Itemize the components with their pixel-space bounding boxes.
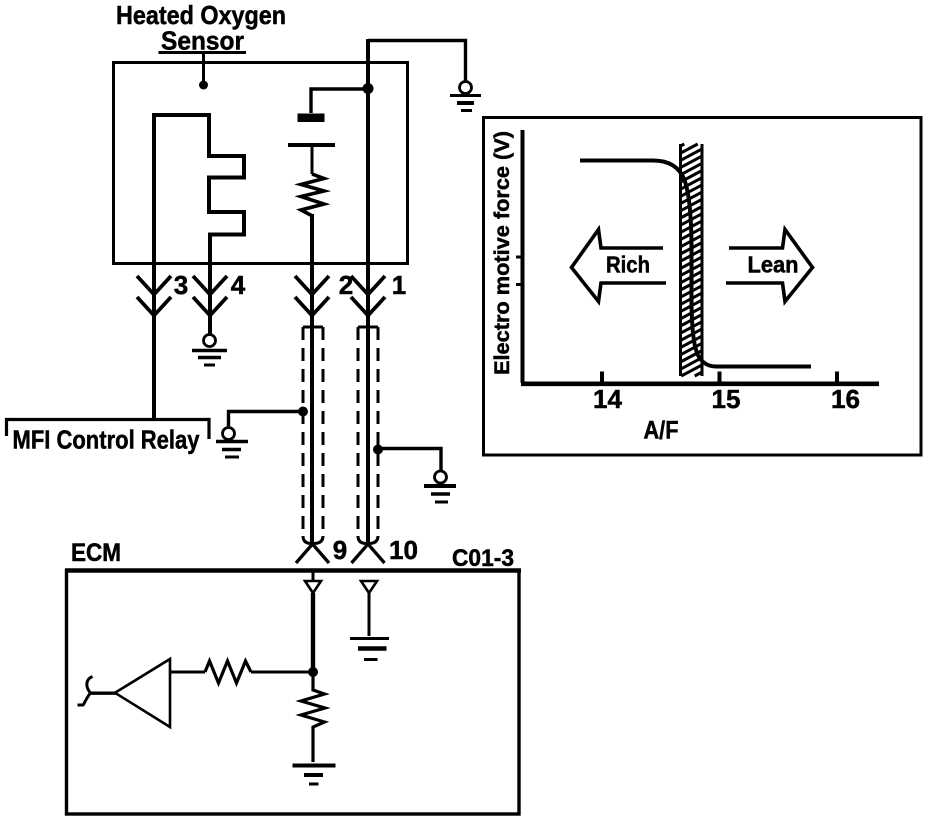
svg-text:3: 3 (174, 270, 188, 300)
svg-text:A/F: A/F (644, 417, 679, 445)
svg-text:10: 10 (389, 535, 418, 565)
svg-text:ECM: ECM (71, 539, 121, 567)
svg-text:16: 16 (831, 384, 860, 414)
svg-text:14: 14 (593, 384, 622, 414)
svg-text:C01-3: C01-3 (452, 545, 514, 572)
svg-text:Electro motive force (V): Electro motive force (V) (491, 131, 514, 375)
svg-text:Rich: Rich (606, 252, 650, 278)
svg-text:1: 1 (392, 270, 406, 300)
svg-text:9: 9 (333, 535, 347, 565)
svg-text:Lean: Lean (748, 252, 799, 278)
svg-text:15: 15 (712, 384, 741, 414)
svg-text:MFI Control Relay: MFI Control Relay (13, 425, 200, 455)
svg-text:4: 4 (231, 270, 246, 300)
svg-text:2: 2 (339, 270, 353, 300)
